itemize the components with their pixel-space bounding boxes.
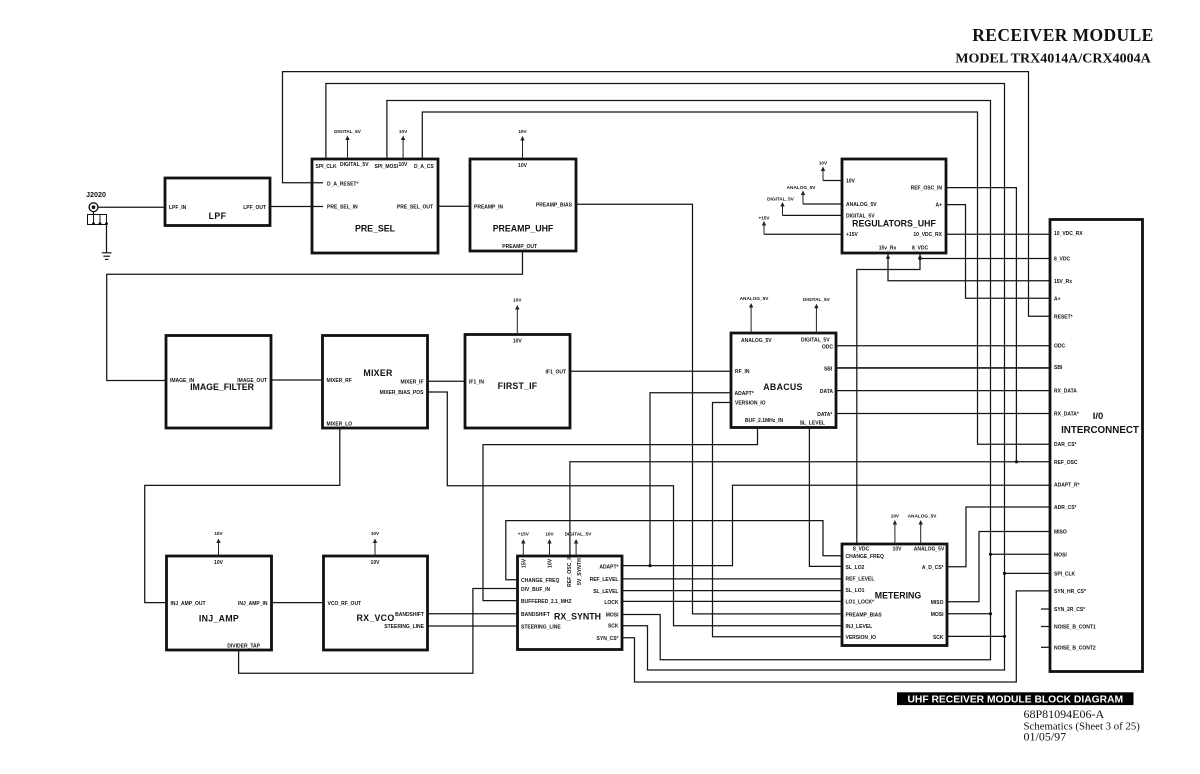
svg-text:ANALOG_5V: ANALOG_5V	[908, 514, 938, 519]
wire 8_VDC REGULATORS to I/O 8_VDC	[920, 253, 1050, 259]
svg-text:10V: 10V	[371, 531, 380, 536]
svg-text:ANALOG_5V: ANALOG_5V	[787, 185, 817, 190]
wire LPF_OUT to PRE_SEL_IN	[270, 206, 323, 208]
svg-text:68P81094E06-A: 68P81094E06-A	[1024, 707, 1105, 721]
svg-text:SBI: SBI	[824, 366, 833, 372]
svg-text:RF_IN: RF_IN	[735, 369, 750, 375]
block IMAGE_FILTER	[166, 336, 271, 429]
wire shield to ground	[106, 225, 108, 253]
svg-text:REF_LEVEL: REF_LEVEL	[846, 577, 875, 583]
power arrow ANALOG_5V above METERING	[920, 523, 922, 544]
wire STEERING_LINE RX_VCO to RX_SYNTH	[428, 625, 518, 627]
svg-text:PRE_SEL: PRE_SEL	[355, 224, 396, 234]
ground symbol	[102, 252, 112, 254]
svg-text:LOCK: LOCK	[604, 600, 619, 606]
svg-text:RX_DATA: RX_DATA	[1054, 389, 1077, 395]
block REGULATORS_UHF	[842, 159, 946, 253]
wire stub I/O NOISE_B_CONT1	[1041, 626, 1050, 628]
svg-text:MIXER_IF: MIXER_IF	[400, 379, 423, 385]
power arrow 10V above PREAMP_UHF	[522, 139, 524, 159]
junction SPI_CLK x METERING SCK	[1003, 635, 1006, 638]
svg-text:REF_OSC: REF_OSC	[1054, 460, 1078, 466]
svg-text:NOISE_B_CONT1: NOISE_B_CONT1	[1054, 625, 1096, 631]
svg-text:REF_OSC_IN: REF_OSC_IN	[911, 186, 943, 192]
svg-text:SCK: SCK	[608, 624, 619, 630]
svg-text:DIGITAL_5V: DIGITAL_5V	[565, 532, 593, 537]
power arrow 10V above FIRST_IF	[516, 308, 518, 335]
svg-text:D_A_RESET*: D_A_RESET*	[327, 181, 358, 187]
wire ADAPT* net: RX_SYNTH ADAPT* to I/O ADAPT_R*	[622, 485, 1050, 565]
svg-text:A+: A+	[1054, 296, 1061, 302]
svg-text:MIXER_RF: MIXER_RF	[327, 378, 352, 384]
svg-text:10V: 10V	[518, 129, 527, 134]
svg-text:PREAMP_UHF: PREAMP_UHF	[493, 224, 554, 234]
svg-text:5V_SYNTH: 5V_SYNTH	[577, 558, 583, 585]
junction 8_VDC branch	[918, 257, 921, 260]
svg-text:BUF_2.1MHz_IN: BUF_2.1MHz_IN	[745, 418, 783, 424]
power arrow 10V left of REGULATORS_UHF	[823, 180, 842, 182]
svg-text:MOSI: MOSI	[931, 612, 944, 618]
wire MOSI branch to I/O MOSI pin	[991, 553, 1051, 555]
svg-text:MODEL TRX4014A/CRX4004A: MODEL TRX4014A/CRX4004A	[955, 52, 1151, 67]
wire A+ REGULATORS to I/O	[946, 205, 1050, 299]
banner UHF RECEIVER MODULE BLOCK DIAGRAM	[897, 692, 1134, 705]
svg-text:10V: 10V	[214, 531, 223, 536]
arrowhead 15v_Rx into REGULATORS_UHF	[886, 254, 890, 259]
power arrow +15V above RX_SYNTH	[522, 542, 524, 556]
connector J2020 shield pins	[93, 215, 95, 225]
wire SPI_CLK branch to METERING SCK pin	[947, 635, 1005, 637]
svg-text:MIXER_LO: MIXER_LO	[327, 422, 353, 428]
power arrow 10V above RX_VCO	[374, 542, 376, 557]
svg-text:+15V: +15V	[758, 216, 770, 221]
block ABACUS	[731, 333, 836, 428]
svg-text:SPI_CLK: SPI_CLK	[1054, 572, 1076, 578]
block INJ_AMP	[167, 556, 272, 650]
svg-text:DIGITAL_5V: DIGITAL_5V	[334, 129, 362, 134]
svg-text:10V: 10V	[513, 298, 522, 303]
wire DATA* ABACUS to I/O RX_DATA*	[836, 413, 1050, 415]
svg-text:MISO: MISO	[931, 600, 944, 606]
svg-text:MIXER_BIAS_POS: MIXER_BIAS_POS	[380, 390, 425, 396]
svg-text:DIGITAL_5V: DIGITAL_5V	[803, 297, 831, 302]
svg-text:IF1_IN: IF1_IN	[469, 379, 484, 385]
svg-text:DIGITAL_5V: DIGITAL_5V	[340, 162, 369, 168]
svg-text:J2020: J2020	[86, 190, 106, 199]
junction MOSI x I/O	[989, 553, 992, 556]
junction SPI_CLK x I/O	[1003, 572, 1006, 575]
svg-text:10_VDC_RX: 10_VDC_RX	[913, 232, 942, 238]
svg-text:10V: 10V	[513, 339, 523, 345]
wire ABACUS SL_LEVEL to METERING SL_LO2	[809, 428, 842, 567]
wire SBI ABACUS to I/O	[836, 367, 1050, 369]
svg-text:+15V: +15V	[846, 232, 858, 238]
svg-text:15V: 15V	[522, 558, 528, 568]
wire SL_LEVEL RX_SYNTH to METERING SL_LO1	[622, 590, 842, 592]
svg-text:INJ_AMP_IN: INJ_AMP_IN	[238, 601, 268, 607]
wire stub I/O SYN_2R_CS*	[1041, 608, 1050, 610]
wire PREAMP_BIAS to METERING PREAMP_BIAS	[576, 204, 842, 614]
svg-text:10V: 10V	[846, 179, 856, 185]
block RX_SYNTH	[518, 556, 623, 650]
svg-text:RECEIVER MODULE: RECEIVER MODULE	[972, 25, 1154, 45]
wire PRE_SEL_OUT to PREAMP_IN	[438, 205, 470, 207]
svg-text:10V: 10V	[518, 163, 528, 169]
svg-text:REF_OSC_IN: REF_OSC_IN	[567, 554, 573, 587]
wire stub I/O NOISE_B_CONT2	[1041, 646, 1050, 648]
svg-text:10V: 10V	[893, 547, 903, 553]
power arrow ANALOG_5V above ABACUS	[750, 306, 752, 333]
svg-text:BANDSHIFT: BANDSHIFT	[395, 612, 424, 618]
svg-text:SYN_2R_CS*: SYN_2R_CS*	[1054, 607, 1085, 613]
svg-text:10V: 10V	[399, 162, 409, 168]
wire REF_LEVEL RX_SYNTH to METERING	[622, 578, 842, 580]
svg-text:SYN_CS*: SYN_CS*	[597, 636, 619, 642]
svg-text:8_VDC: 8_VDC	[1054, 257, 1071, 263]
svg-text:DATA*: DATA*	[817, 412, 832, 418]
svg-text:15V_Rx: 15V_Rx	[1054, 279, 1072, 285]
power arrow 10V above METERING	[894, 523, 896, 544]
svg-text:FIRST_IF: FIRST_IF	[498, 381, 538, 391]
svg-text:SL_LEVEL: SL_LEVEL	[593, 589, 618, 595]
svg-text:ODC: ODC	[822, 344, 834, 350]
svg-text:SL_LO2: SL_LO2	[846, 565, 865, 571]
svg-text:LO1_LOCK*: LO1_LOCK*	[846, 600, 875, 606]
svg-text:01/05/97: 01/05/97	[1024, 730, 1067, 744]
svg-text:LPF_IN: LPF_IN	[169, 205, 187, 211]
svg-text:A_D_CS*: A_D_CS*	[922, 565, 944, 571]
wire 10_VDC_RX REGULATORS to I/O	[946, 233, 1050, 235]
svg-text:+15V: +15V	[518, 532, 530, 537]
block PREAMP_UHF	[470, 159, 576, 251]
svg-text:STEERING_LINE: STEERING_LINE	[521, 624, 561, 630]
wire CHANGE_FREQ RX_SYNTH to METERING	[506, 521, 842, 580]
wire MIXER_IF to IF1_IN	[428, 380, 466, 382]
power arrow DIGITAL_5V above ABACUS	[815, 307, 817, 333]
svg-text:BUFFERED_2.1_MHZ: BUFFERED_2.1_MHZ	[521, 599, 572, 605]
wire 15v_Rx REGULATORS to I/O 15V_Rx	[888, 253, 1050, 281]
wire VERSION_IO ABACUS to METERING	[713, 403, 843, 637]
wire RESET* net: I/O RESET* to PRE_SEL D_A_RESET*	[283, 72, 1051, 317]
svg-text:DIGITAL_5V: DIGITAL_5V	[767, 197, 795, 202]
wire ABACUS BUF_2.1MHz_IN to RX_SYNTH BUFFERED_2.1_MHZ	[483, 428, 758, 601]
svg-text:ADAPT_R*: ADAPT_R*	[1054, 483, 1080, 489]
power arrow DIGITAL_5V left of REGULATORS_UHF	[783, 214, 843, 216]
junction REF_OSC branch	[1015, 460, 1018, 463]
svg-text:15v_Rx: 15v_Rx	[879, 246, 897, 252]
svg-text:I/0: I/0	[1093, 411, 1104, 422]
block I/O INTERCONNECT	[1050, 220, 1143, 672]
svg-text:SYN_HR_CS*: SYN_HR_CS*	[1054, 589, 1086, 595]
svg-text:A+: A+	[935, 203, 942, 209]
power arrow 10V above INJ_AMP	[218, 542, 220, 557]
svg-text:REF_LEVEL: REF_LEVEL	[590, 577, 619, 583]
wire ADAPT* net: ABACUS ADAPT* branch down	[650, 393, 731, 566]
svg-text:SL_LO1: SL_LO1	[846, 588, 865, 594]
junction ADAPT* branch	[648, 564, 651, 567]
svg-text:ANALOG_5V: ANALOG_5V	[741, 338, 772, 344]
svg-text:8_VDC: 8_VDC	[853, 547, 870, 553]
power arrow 10V above PRE_SEL	[402, 139, 404, 160]
svg-text:INJ_LEVEL: INJ_LEVEL	[846, 624, 873, 630]
wire A_D_CS* METERING to I/O ADR_CS*	[947, 507, 1050, 567]
power arrow +15V left of REGULATORS_UHF	[764, 233, 842, 235]
svg-text:STEERING_LINE: STEERING_LINE	[384, 624, 424, 630]
power arrow ANALOG_5V left of REGULATORS_UHF	[803, 203, 842, 205]
wire J2020 shield stem	[93, 212, 95, 215]
wire MOSI branch to METERING MOSI pin	[947, 613, 991, 615]
svg-text:MOSI: MOSI	[1054, 552, 1067, 558]
svg-text:REGULATORS_UHF: REGULATORS_UHF	[852, 219, 936, 229]
wire INJ_AMP_IN to VCO_RF_OUT	[272, 602, 324, 604]
svg-text:ADAPT*: ADAPT*	[735, 391, 754, 397]
svg-text:ABACUS: ABACUS	[763, 382, 802, 392]
wire MIXER_BIAS_POS to METERING INJ_LEVEL	[428, 392, 843, 626]
svg-text:LPF_OUT: LPF_OUT	[243, 205, 266, 211]
power arrow DIGITAL_5V above PRE_SEL	[347, 139, 349, 160]
svg-text:RX_SYNTH: RX_SYNTH	[554, 612, 601, 622]
svg-text:D_A_CS: D_A_CS	[414, 164, 434, 170]
svg-text:10_VDC_RX: 10_VDC_RX	[1054, 231, 1083, 237]
svg-text:DIV_BUF_IN: DIV_BUF_IN	[521, 587, 551, 593]
svg-text:INJ_AMP: INJ_AMP	[199, 614, 239, 624]
wire 8_VDC branch to METERING 8_VDC	[857, 259, 920, 545]
svg-text:ADAPT*: ADAPT*	[599, 564, 618, 570]
svg-text:SBI: SBI	[1054, 365, 1063, 371]
svg-text:VERSION_IO: VERSION_IO	[846, 635, 877, 641]
svg-text:IMAGE_FILTER: IMAGE_FILTER	[190, 382, 255, 392]
svg-text:ANALOG_5V: ANALOG_5V	[740, 296, 770, 301]
wire SPI_CLK net: PRE_SEL SPI_CLK / I/O SPI_CLK / METERING SCK / RX_SYNTH SCK	[326, 84, 1005, 671]
svg-text:SL_LEVEL: SL_LEVEL	[800, 420, 825, 426]
svg-text:10V: 10V	[548, 558, 554, 568]
wire BANDSHIFT RX_VCO to RX_SYNTH	[428, 613, 518, 615]
svg-text:10V: 10V	[214, 560, 224, 566]
svg-text:PREAMP_BIAS: PREAMP_BIAS	[846, 612, 883, 618]
svg-text:SPI_CLK: SPI_CLK	[316, 164, 338, 170]
block FIRST_IF	[465, 335, 570, 429]
svg-text:UHF RECEIVER MODULE BLOCK DIAG: UHF RECEIVER MODULE BLOCK DIAGRAM	[907, 694, 1123, 705]
svg-text:10V: 10V	[891, 514, 900, 519]
wire DATA ABACUS to I/O RX_DATA	[836, 390, 1050, 392]
wire REF_OSC net: RX_SYNTH REF_OSC_IN to I/O REF_OSC	[570, 462, 1050, 556]
block PRE_SEL	[312, 159, 438, 253]
svg-text:8_VDC: 8_VDC	[912, 246, 929, 252]
svg-text:DIVIDER_TAP: DIVIDER_TAP	[227, 643, 260, 649]
wire MISO METERING to I/O MISO	[947, 532, 1050, 602]
wire IF1_OUT to ABACUS RF_IN	[570, 370, 731, 372]
svg-text:10V: 10V	[371, 560, 381, 566]
svg-text:PREAMP_OUT: PREAMP_OUT	[502, 244, 537, 250]
svg-text:DAR_CS*: DAR_CS*	[1054, 442, 1077, 448]
svg-text:SPI_MOSI: SPI_MOSI	[375, 164, 399, 170]
wire MIXER_LO to INJ_AMP_OUT	[145, 428, 340, 603]
svg-text:LPF: LPF	[209, 211, 227, 221]
svg-text:PRE_SEL_OUT: PRE_SEL_OUT	[397, 205, 433, 211]
wire REF_OSC branch to REGULATORS REF_OSC_IN	[946, 188, 1016, 462]
svg-text:BANDSHIFT: BANDSHIFT	[521, 612, 550, 618]
wire SYN_CS* RX_SYNTH to I/O SYN_HR_CS*	[622, 591, 1050, 682]
svg-text:CHANGE_FREQ: CHANGE_FREQ	[521, 578, 559, 584]
svg-text:MOSI: MOSI	[606, 613, 619, 619]
svg-text:NOISE_B_CONT2: NOISE_B_CONT2	[1054, 645, 1096, 651]
svg-text:ADR_CS*: ADR_CS*	[1054, 505, 1077, 511]
svg-text:INTERCONNECT: INTERCONNECT	[1061, 425, 1139, 436]
svg-text:RX_DATA*: RX_DATA*	[1054, 412, 1079, 418]
wire MOSI net: PRE_SEL SPI_MOSI / I/O MOSI / METERING MOSI / RX_SYNTH MOSI	[387, 101, 991, 660]
svg-text:RX_VCO: RX_VCO	[357, 613, 395, 623]
svg-text:VERSION_IO: VERSION_IO	[735, 401, 766, 407]
svg-text:VCO_RF_OUT: VCO_RF_OUT	[328, 601, 362, 607]
svg-text:SCK: SCK	[933, 635, 944, 641]
block METERING	[842, 544, 947, 646]
svg-text:IF1_OUT: IF1_OUT	[545, 369, 566, 375]
svg-text:ANALOG_5V: ANALOG_5V	[846, 202, 877, 208]
wire IMAGE_OUT to MIXER_RF	[271, 379, 323, 381]
wire LOCK RX_SYNTH to METERING LO1_LOCK*	[622, 600, 842, 602]
svg-text:INJ_AMP_OUT: INJ_AMP_OUT	[171, 601, 206, 607]
wire PREAMP_OUT to IMAGE_IN	[107, 251, 523, 381]
svg-text:PREAMP_BIAS: PREAMP_BIAS	[536, 202, 573, 208]
svg-text:ODC: ODC	[1054, 344, 1066, 350]
junction MOSI x METERING MOSI	[989, 612, 992, 615]
wire DAR_CS* net: PRE_SEL D_A_CS to I/O DAR_CS*	[422, 112, 1050, 444]
wire DIVIDER_TAP to RX_SYNTH DIV_BUF_IN	[239, 589, 518, 674]
block RX_VCO	[324, 556, 428, 650]
svg-text:RESET*: RESET*	[1054, 314, 1073, 320]
svg-text:10V: 10V	[819, 161, 828, 166]
connector J2020 shield box	[88, 215, 107, 225]
svg-text:PRE_SEL_IN: PRE_SEL_IN	[327, 205, 358, 211]
svg-text:DIGITAL_5V: DIGITAL_5V	[801, 338, 830, 344]
svg-text:MISO: MISO	[1054, 530, 1067, 536]
wire ODC ABACUS to I/O	[836, 345, 1050, 347]
block MIXER	[323, 336, 428, 429]
connector J2020 coax symbol	[89, 203, 98, 212]
svg-text:10V: 10V	[399, 129, 408, 134]
wire J2020 to LPF_IN	[98, 206, 165, 208]
power arrow 10V above RX_SYNTH	[549, 542, 551, 556]
svg-text:PREAMP_IN: PREAMP_IN	[474, 204, 504, 210]
wire SPI_CLK branch to I/O SPI_CLK pin	[1005, 572, 1051, 574]
block LPF	[165, 178, 270, 226]
power arrow DIGITAL_5V above RX_SYNTH	[575, 542, 577, 556]
svg-text:METERING: METERING	[875, 591, 922, 601]
svg-text:DATA: DATA	[820, 389, 834, 395]
svg-text:10V: 10V	[545, 532, 554, 537]
arrowhead 8_VDC into REGULATORS_UHF	[918, 254, 922, 259]
svg-text:ANALOG_5V: ANALOG_5V	[914, 547, 945, 553]
svg-text:MIXER: MIXER	[363, 368, 393, 378]
svg-text:CHANGE_FREQ: CHANGE_FREQ	[846, 554, 884, 560]
